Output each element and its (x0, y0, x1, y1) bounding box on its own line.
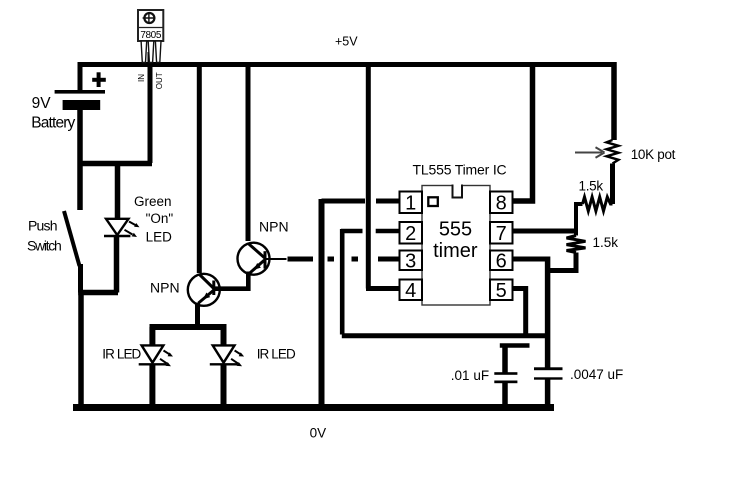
svg-text:IN: IN (137, 74, 146, 82)
svg-text:IR LED: IR LED (257, 347, 296, 362)
svg-text:1.5k: 1.5k (579, 179, 604, 194)
svg-text:2: 2 (405, 223, 416, 245)
svg-text:1: 1 (405, 193, 416, 215)
svg-text:3: 3 (405, 250, 416, 272)
svg-text:OUT: OUT (155, 72, 164, 89)
svg-text:555: 555 (439, 218, 472, 240)
svg-text:TL555 Timer IC: TL555 Timer IC (413, 162, 507, 178)
svg-text:Battery: Battery (31, 115, 75, 132)
svg-text:Green: Green (134, 194, 172, 209)
svg-text:8: 8 (496, 193, 507, 215)
svg-text:timer: timer (433, 240, 478, 262)
svg-text:7: 7 (496, 223, 507, 245)
svg-text:NPN: NPN (150, 280, 180, 296)
svg-text:9V: 9V (32, 95, 52, 112)
svg-text:4: 4 (405, 280, 416, 302)
svg-text:NPN: NPN (259, 218, 289, 234)
svg-text:1.5k: 1.5k (593, 235, 619, 250)
svg-text:Push: Push (28, 218, 57, 234)
svg-text:.01 uF: .01 uF (451, 368, 489, 383)
svg-text:6: 6 (496, 250, 507, 272)
svg-text:LED: LED (146, 230, 173, 245)
svg-text:10K pot: 10K pot (631, 147, 676, 162)
svg-text:7805: 7805 (140, 30, 161, 41)
svg-text:+5V: +5V (335, 35, 358, 49)
svg-text:IR LED: IR LED (102, 347, 141, 362)
svg-text:Switch: Switch (27, 238, 61, 254)
svg-text:0V: 0V (310, 426, 327, 441)
svg-text:"On": "On" (146, 211, 174, 226)
svg-text:.0047 uF: .0047 uF (570, 367, 623, 382)
svg-text:5: 5 (496, 280, 507, 302)
